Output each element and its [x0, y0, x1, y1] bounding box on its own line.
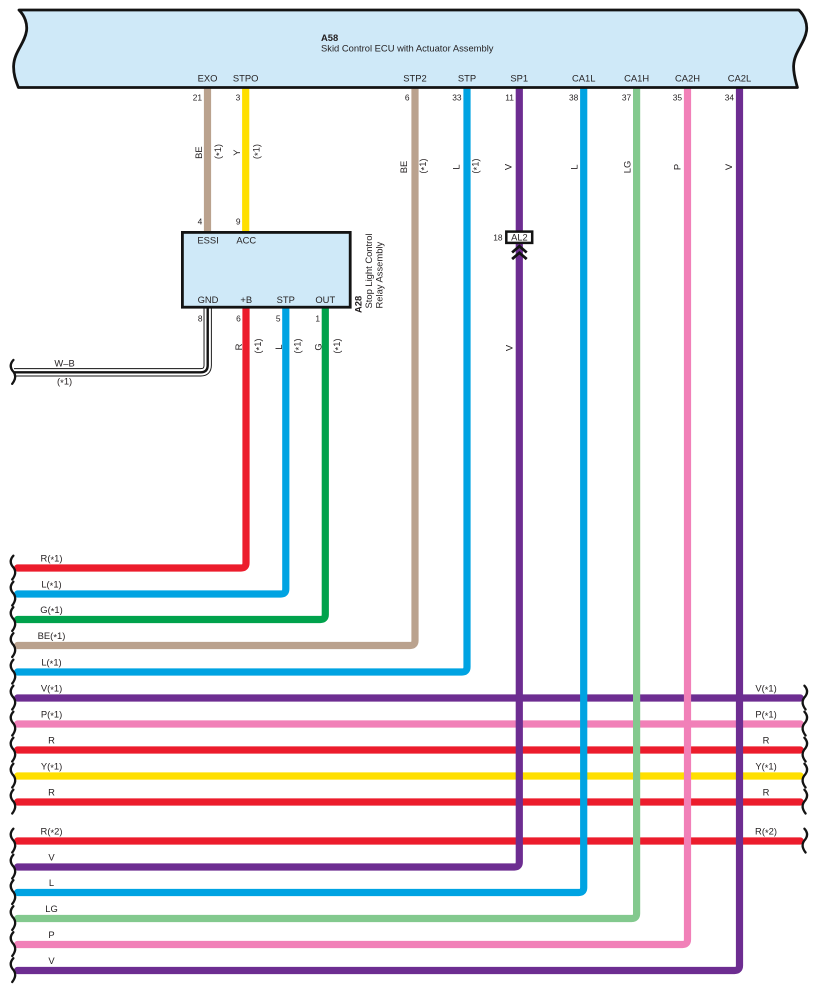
label AL2 [511, 233, 528, 243]
wire label Y(*1) left at y=776 [41, 761, 62, 774]
torn end squiggle left y=892.5 [11, 880, 15, 904]
torn end squiggle left y=724 [11, 712, 15, 736]
svg-text:V: V [48, 955, 55, 966]
wire color label (*1) STP5 wire (rotated) [291, 338, 304, 353]
svg-text:L: L [273, 344, 284, 349]
pin label +B on A28 [240, 294, 252, 305]
wire label V left at y=867 [48, 852, 55, 863]
pin number 6 (+B) [236, 314, 241, 324]
wire BE(*1) from A58 x=415 [18, 86, 416, 646]
svg-text:R: R [48, 735, 55, 746]
svg-text:33: 33 [452, 92, 462, 102]
pin label STP on A58 [458, 73, 476, 84]
wire R horizontal R [18, 746, 801, 753]
relay A28 box (Stop Light Control Relay Assembly) [182, 232, 350, 307]
pin number 34 (CA2L) [725, 92, 735, 102]
wire label L(*1) left at y=672 [41, 657, 61, 670]
pin number 38 (CA1L) [569, 92, 579, 102]
wire V from A58 x=519.3 [18, 86, 520, 867]
svg-text:LG: LG [621, 161, 632, 174]
svg-text:CA2H: CA2H [675, 73, 700, 84]
svg-text:P: P [671, 164, 682, 170]
wire color label L STP5 wire (rotated) [273, 344, 284, 349]
svg-text:GND: GND [198, 294, 219, 305]
pin label CA2L on A58 [728, 73, 751, 84]
torn end squiggle left y=619.5 [11, 607, 15, 631]
wire P from A58 x=687.5 [18, 86, 688, 945]
pin number 6 (STP2) [405, 92, 410, 102]
svg-text:Y(*1): Y(*1) [755, 761, 776, 774]
wire color label V CA2L (rotated) [723, 163, 734, 170]
svg-text:ACC: ACC [236, 235, 256, 246]
svg-text:8: 8 [198, 314, 203, 324]
wire color label (*1) STP2 wire (rotated) [417, 158, 430, 173]
pin number 35 (CA2H) [673, 92, 683, 102]
svg-text:Y(*1): Y(*1) [41, 761, 62, 774]
torn end squiggle right y=724 [803, 712, 807, 736]
pin number 3 (STPO) [236, 92, 241, 102]
svg-text:BE: BE [398, 161, 409, 174]
wire color label L CA1L (rotated) [568, 164, 579, 169]
svg-text:V: V [723, 163, 734, 170]
torn end squiggle right y=802 [803, 790, 807, 814]
pin number 4 (ESSI) [198, 217, 203, 227]
pin label ACC on A28 [236, 235, 256, 246]
wire label R right at y=802 [763, 787, 770, 798]
wire label R right at y=750 [763, 735, 770, 746]
torn end squiggle left y=750 [11, 738, 15, 762]
svg-text:+B: +B [240, 294, 252, 305]
wire color label L STP (rotated) [450, 164, 461, 169]
wire color label V SP1 below AL2 (rotated) [503, 344, 514, 351]
svg-text:18: 18 [493, 233, 503, 243]
svg-text:CA2L: CA2L [728, 73, 751, 84]
svg-text:STP: STP [277, 294, 295, 305]
torn end squiggle left y=970.5 [11, 958, 15, 982]
svg-text:4: 4 [198, 217, 203, 227]
wire label LG left at y=918.5 [45, 903, 58, 914]
label Stop Light Control (rotated) [363, 233, 374, 308]
svg-text:L(*1): L(*1) [41, 579, 61, 592]
pin label OUT on A28 [315, 294, 335, 305]
pin label CA1L on A58 [572, 73, 595, 84]
wire P(*1) horizontal P [18, 720, 801, 727]
svg-text:Relay Assembly: Relay Assembly [374, 241, 385, 308]
wire color label (*1) STPO wire (rotated) [250, 144, 263, 159]
pin label STPO on A58 [233, 73, 259, 84]
wire W-B from relay GND (outline) [14, 306, 208, 372]
torn end squiggle left y=944.5 [11, 932, 15, 956]
wire color label LG CA1H (rotated) [621, 161, 632, 174]
wire color label P CA2H (rotated) [671, 164, 682, 170]
svg-text:L: L [568, 164, 579, 169]
svg-text:LG: LG [45, 903, 58, 914]
svg-text:R(*1): R(*1) [41, 553, 63, 566]
wire label P(*1) right at y=724 [755, 709, 776, 722]
torn end squiggle left W-B [11, 360, 15, 384]
pin label CA2H on A58 [675, 73, 700, 84]
svg-text:L(*1): L(*1) [41, 657, 61, 670]
svg-text:L: L [49, 877, 54, 888]
svg-text:(*1): (*1) [250, 144, 263, 159]
svg-text:11: 11 [505, 92, 514, 102]
pin number 18 (AL2) [493, 233, 503, 243]
wire color label V SP1 (rotated) [502, 163, 513, 170]
wire L(*1) from relay A28 x=285.8 [18, 306, 286, 594]
torn end squiggle left y=698 [11, 686, 15, 710]
svg-text:CA1L: CA1L [572, 73, 595, 84]
svg-text:ESSI: ESSI [197, 235, 218, 246]
ECU A58 box (Skid Control ECU with Actuator Assembly) [14, 10, 807, 88]
svg-text:STP: STP [458, 73, 476, 84]
wire L from A58 x=583.7 [18, 86, 584, 893]
svg-text:EXO: EXO [198, 73, 218, 84]
wire Y(*1) horizontal Y [18, 772, 801, 779]
svg-text:P: P [48, 929, 54, 940]
svg-text:1: 1 [315, 314, 320, 324]
svg-text:OUT: OUT [315, 294, 335, 305]
wire color label (*1) OUT wire (rotated) [331, 338, 344, 353]
wire label R(*2) right at y=841 [755, 826, 777, 839]
pin number 11 (SP1) [505, 92, 514, 102]
svg-text:6: 6 [236, 314, 241, 324]
wire label L(*1) left at y=594 [41, 579, 61, 592]
pin number 5 (STP) [276, 314, 281, 324]
wire label (*1) under W-B [57, 375, 72, 388]
wire Y from A58 STPO to relay ACC [242, 86, 249, 233]
svg-text:(*1): (*1) [57, 375, 72, 388]
wire label R(*1) left at y=568 [41, 553, 63, 566]
wire color label (*1) +B wire (rotated) [252, 338, 265, 353]
torn end squiggle right y=698 [803, 686, 807, 710]
svg-text:35: 35 [673, 92, 683, 102]
pin label SP1 on A58 [510, 73, 528, 84]
svg-text:BE(*1): BE(*1) [38, 630, 66, 643]
pin number 1 (OUT) [315, 314, 320, 324]
svg-text:(*1): (*1) [291, 338, 304, 353]
svg-text:P(*1): P(*1) [41, 709, 62, 722]
svg-text:A58: A58 [321, 32, 338, 43]
svg-text:(*1): (*1) [252, 338, 265, 353]
wire label W-B [54, 358, 74, 369]
label A28 designator (rotated) [353, 296, 364, 313]
wire V from A58 x=739.5 [18, 86, 740, 971]
svg-text:L: L [450, 164, 461, 169]
svg-text:R(*2): R(*2) [755, 826, 777, 839]
svg-text:R: R [233, 343, 244, 350]
wire R(*2) horizontal R [18, 837, 801, 844]
wire label Y(*1) right at y=776 [755, 761, 776, 774]
svg-text:34: 34 [725, 92, 735, 102]
pin label STP on A28 [277, 294, 295, 305]
svg-text:V: V [502, 163, 513, 170]
svg-text:BE: BE [193, 146, 204, 159]
pin number 9 (ACC) [236, 217, 241, 227]
svg-text:V(*1): V(*1) [755, 683, 776, 696]
wire R horizontal R [18, 798, 801, 805]
wire color label BE STP2 (rotated) [398, 161, 409, 174]
torn end squiggle left y=672 [11, 660, 15, 684]
wire G(*1) from relay A28 x=325.3 [18, 306, 326, 620]
pin label ESSI on A28 [197, 235, 218, 246]
svg-text:(*1): (*1) [331, 338, 344, 353]
torn end squiggle left y=568 [11, 556, 15, 580]
svg-text:R(*2): R(*2) [41, 826, 63, 839]
wire L(*1) from A58 x=467 [18, 86, 468, 672]
wire label R left at y=802 [48, 787, 55, 798]
connector AL2 chevron arrows [512, 246, 527, 259]
torn end squiggle left y=918.5 [11, 906, 15, 930]
svg-text:6: 6 [405, 92, 410, 102]
svg-text:37: 37 [622, 92, 632, 102]
pin number 8 (GND) [198, 314, 203, 324]
pin number 21 (EXO) [193, 92, 203, 102]
wire V(*1) horizontal V [18, 694, 801, 701]
svg-text:AL2: AL2 [511, 233, 528, 243]
torn end squiggle right y=750 [803, 738, 807, 762]
svg-text:R: R [763, 787, 770, 798]
torn end squiggle left y=594 [11, 582, 15, 606]
wire label V(*1) left at y=698 [41, 683, 62, 696]
svg-text:38: 38 [569, 92, 579, 102]
svg-text:Y: Y [231, 149, 242, 156]
torn end squiggle right y=841 [803, 829, 807, 853]
label Relay Assembly (rotated) [374, 241, 385, 308]
wire color label G OUT wire (rotated) [312, 343, 323, 350]
torn end squiggle left y=841 [11, 829, 15, 853]
wire label P(*1) left at y=724 [41, 709, 62, 722]
svg-text:Skid Control ECU with Actuator: Skid Control ECU with Actuator Assembly [321, 43, 494, 54]
wire label V(*1) right at y=698 [755, 683, 776, 696]
svg-text:Stop Light Control: Stop Light Control [363, 233, 374, 308]
svg-text:G: G [312, 343, 323, 350]
svg-text:V(*1): V(*1) [41, 683, 62, 696]
pin number 37 (CA1H) [622, 92, 632, 102]
svg-text:(*1): (*1) [469, 158, 482, 173]
svg-text:G(*1): G(*1) [40, 604, 62, 617]
svg-text:W–B: W–B [54, 358, 74, 369]
wire color label (*1) STP wire (rotated) [469, 158, 482, 173]
svg-text:P(*1): P(*1) [755, 709, 776, 722]
pin label GND on A28 [198, 294, 219, 305]
wire color label Y (rotated) [231, 149, 242, 156]
pin label STP2 on A58 [403, 73, 426, 84]
wire label BE(*1) left at y=645.5 [38, 630, 66, 643]
wire label R(*2) left at y=841 [41, 826, 63, 839]
wire BE from A58 EXO to relay ESSI [204, 86, 211, 233]
wire color label (*1) EXO wire (rotated) [212, 144, 225, 159]
svg-text:V: V [48, 852, 55, 863]
wire color label BE (rotated) [193, 146, 204, 159]
svg-text:9: 9 [236, 217, 241, 227]
svg-text:V: V [503, 344, 514, 351]
wire label L left at y=892.5 [49, 877, 54, 888]
svg-text:5: 5 [276, 314, 281, 324]
torn end squiggle left y=645.5 [11, 633, 15, 657]
svg-text:(*1): (*1) [212, 144, 225, 159]
svg-text:STPO: STPO [233, 73, 259, 84]
torn end squiggle left y=776 [11, 764, 15, 788]
svg-text:21: 21 [193, 92, 203, 102]
svg-text:STP2: STP2 [403, 73, 426, 84]
svg-text:(*1): (*1) [417, 158, 430, 173]
pin label EXO on A58 [198, 73, 218, 84]
pin number 33 (STP) [452, 92, 462, 102]
svg-text:CA1H: CA1H [624, 73, 649, 84]
wire label G(*1) left at y=619.5 [40, 604, 62, 617]
wire LG from A58 x=636.6 [18, 86, 637, 919]
torn end squiggle right y=776 [803, 764, 807, 788]
svg-text:R: R [763, 735, 770, 746]
svg-text:R: R [48, 787, 55, 798]
wire label R left at y=750 [48, 735, 55, 746]
connector AL2 box [506, 232, 532, 243]
pin label CA1H on A58 [624, 73, 649, 84]
wire color label R +B wire (rotated) [233, 343, 244, 350]
wire label P left at y=944.5 [48, 929, 54, 940]
torn end squiggle left y=867 [11, 855, 15, 879]
svg-text:3: 3 [236, 92, 241, 102]
wire R(*1) from relay A28 x=246 [18, 306, 247, 568]
wire label V left at y=970.5 [48, 955, 55, 966]
torn end squiggle left y=802 [11, 790, 15, 814]
svg-text:SP1: SP1 [510, 73, 528, 84]
label A58 subtitle [321, 43, 494, 54]
svg-text:A28: A28 [353, 296, 364, 313]
label A58 title [321, 32, 338, 43]
